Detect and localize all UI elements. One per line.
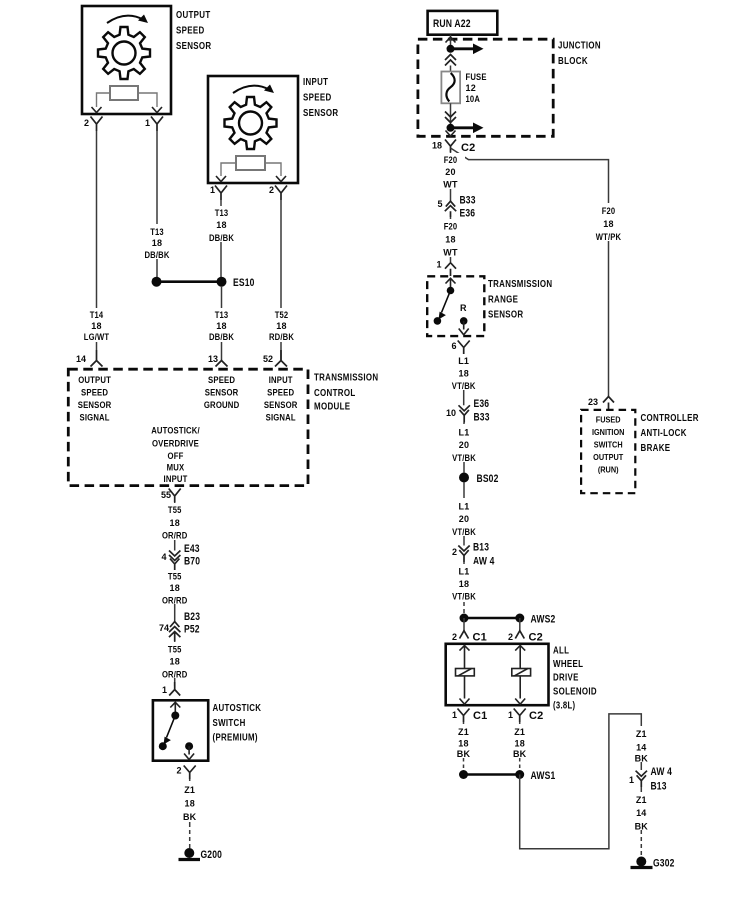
- svg-text:SENSOR: SENSOR: [205, 388, 239, 399]
- svg-text:RANGE: RANGE: [488, 295, 518, 306]
- svg-text:TRANSMISSION: TRANSMISSION: [314, 373, 378, 384]
- svg-text:2: 2: [269, 185, 274, 195]
- junction block dashed box: [418, 39, 553, 136]
- inline connector B13 AW4 pin 2: [452, 542, 495, 568]
- svg-text:C2: C2: [529, 710, 543, 722]
- solenoid pin 1 C2: [508, 709, 543, 723]
- inline connector E43 B70 pin 4: [162, 543, 201, 570]
- autostick pin 2: [177, 766, 196, 780]
- splice ES10: [152, 277, 255, 289]
- svg-text:INPUT: INPUT: [269, 375, 293, 386]
- svg-text:18: 18: [152, 238, 162, 248]
- transmission control module dashed box: [68, 369, 308, 485]
- svg-text:18: 18: [458, 369, 468, 379]
- wire L1 18 VT/BK bottom: [448, 562, 480, 614]
- svg-text:SIGNAL: SIGNAL: [80, 413, 110, 424]
- svg-text:C1: C1: [473, 632, 487, 644]
- svg-text:2: 2: [177, 766, 182, 776]
- wire L1 20 VT/BK: [448, 423, 480, 473]
- svg-text:Z1: Z1: [636, 795, 647, 805]
- svg-text:G200: G200: [201, 849, 223, 861]
- svg-text:12: 12: [466, 83, 476, 93]
- svg-text:WT: WT: [443, 180, 458, 190]
- svg-text:1: 1: [437, 260, 442, 270]
- svg-text:AUTOSTICK/: AUTOSTICK/: [151, 426, 200, 437]
- svg-text:BK: BK: [457, 749, 471, 759]
- svg-text:AWS1: AWS1: [531, 770, 556, 782]
- label AUTOSTICK SWITCH PREMIUM: [213, 703, 262, 744]
- svg-text:LG/WT: LG/WT: [84, 332, 110, 342]
- svg-text:14: 14: [636, 808, 646, 818]
- svg-text:18: 18: [216, 321, 226, 331]
- svg-text:SPEED: SPEED: [303, 93, 332, 104]
- svg-text:FUSED: FUSED: [596, 415, 621, 425]
- svg-text:L1: L1: [459, 567, 470, 577]
- svg-text:1: 1: [452, 710, 457, 720]
- svg-text:AUTOSTICK: AUTOSTICK: [213, 703, 262, 714]
- svg-text:SPEED: SPEED: [176, 26, 205, 37]
- RUN A22 box: [428, 11, 498, 35]
- svg-text:L1: L1: [459, 428, 470, 438]
- wire from RUN A22 into junction block: [446, 35, 456, 49]
- svg-text:RUN A22: RUN A22: [433, 18, 471, 30]
- svg-text:ANTI-LOCK: ANTI-LOCK: [641, 428, 687, 439]
- label OUTPUT SPEED SENSOR: [176, 10, 212, 52]
- label JUNCTION BLOCK: [558, 41, 601, 68]
- svg-text:18: 18: [603, 219, 613, 229]
- pin 2 output sensor: [84, 117, 103, 132]
- svg-text:ES10: ES10: [233, 277, 255, 289]
- svg-text:18: 18: [169, 583, 179, 593]
- label ALL WHEEL DRIVE SOLENOID 3.8L: [553, 646, 597, 712]
- svg-text:SPEED: SPEED: [267, 388, 294, 399]
- svg-text:JUNCTION: JUNCTION: [558, 41, 601, 52]
- svg-text:OR/RD: OR/RD: [162, 670, 188, 680]
- svg-text:VT/BK: VT/BK: [452, 381, 476, 391]
- svg-text:T55: T55: [168, 572, 182, 582]
- wire T52 18 RD/BK: [266, 200, 297, 361]
- TRS pin 1: [437, 260, 457, 277]
- svg-text:SENSOR: SENSOR: [488, 310, 524, 321]
- wire branch diagonal to right: [451, 148, 625, 396]
- svg-text:GROUND: GROUND: [204, 400, 240, 411]
- wire AWS1 to ground route: [520, 714, 642, 849]
- svg-text:18: 18: [184, 799, 194, 809]
- svg-text:18: 18: [91, 321, 101, 331]
- svg-text:B13: B13: [473, 542, 489, 554]
- svg-text:T55: T55: [168, 645, 182, 655]
- svg-text:IGNITION: IGNITION: [592, 427, 625, 437]
- splice AWS2: [460, 614, 556, 626]
- label CONTROLLER ANTI-LOCK BRAKE: [641, 413, 700, 454]
- svg-text:F20: F20: [444, 222, 458, 232]
- wire F20 18 WT: [436, 217, 465, 262]
- svg-text:18: 18: [276, 321, 286, 331]
- svg-text:1: 1: [145, 118, 150, 128]
- svg-text:DB/BK: DB/BK: [209, 332, 234, 342]
- svg-text:SENSOR: SENSOR: [264, 400, 298, 411]
- svg-text:INPUT: INPUT: [164, 474, 188, 485]
- svg-text:P52: P52: [184, 624, 200, 636]
- svg-text:18: 18: [514, 739, 524, 749]
- svg-text:2: 2: [84, 118, 89, 128]
- svg-text:DB/BK: DB/BK: [144, 250, 169, 260]
- wire T13 18 DB/BK below splice: [206, 286, 237, 361]
- svg-text:B70: B70: [184, 556, 200, 568]
- svg-text:T52: T52: [275, 310, 289, 320]
- svg-text:B13: B13: [651, 781, 667, 793]
- svg-text:14: 14: [76, 354, 86, 364]
- svg-text:VT/BK: VT/BK: [452, 527, 476, 537]
- CAB pin 23: [588, 397, 614, 410]
- TCM pin 55: [161, 489, 181, 503]
- svg-text:55: 55: [161, 490, 171, 500]
- pin 1 output sensor: [145, 117, 163, 132]
- resistor inside input sensor: [216, 156, 286, 182]
- TCM text autostick overdrive off mux input: [151, 426, 200, 486]
- svg-text:MUX: MUX: [167, 463, 185, 474]
- output speed sensor: [82, 6, 171, 114]
- svg-text:OR/RD: OR/RD: [162, 596, 188, 606]
- resistor inside output sensor: [92, 86, 163, 113]
- svg-text:SENSOR: SENSOR: [78, 400, 112, 411]
- svg-text:1: 1: [210, 185, 215, 195]
- wire T55 18 OR/RD segment 3: [159, 641, 191, 686]
- svg-text:1: 1: [162, 685, 167, 695]
- pin 1 input sensor: [210, 185, 227, 200]
- TCM text input speed sensor signal: [264, 375, 298, 424]
- splice AWS1: [459, 770, 555, 782]
- solenoid pin 2 C1: [452, 618, 487, 644]
- svg-text:F20: F20: [602, 206, 616, 216]
- svg-text:BS02: BS02: [477, 473, 499, 485]
- TCM text output speed sensor signal: [78, 375, 112, 424]
- junction dot with feed arrow bottom: [445, 103, 484, 136]
- svg-text:B33: B33: [474, 412, 490, 424]
- connector C2 pin 18: [432, 140, 475, 155]
- svg-text:BLOCK: BLOCK: [558, 56, 588, 67]
- svg-text:SWITCH: SWITCH: [594, 440, 623, 450]
- svg-text:10: 10: [446, 408, 456, 418]
- svg-text:G302: G302: [653, 858, 675, 870]
- svg-text:BK: BK: [183, 812, 197, 822]
- svg-text:SPEED: SPEED: [208, 375, 235, 386]
- svg-text:T13: T13: [215, 208, 229, 218]
- svg-text:RD/BK: RD/BK: [269, 332, 294, 342]
- input speed sensor: [208, 76, 298, 183]
- svg-text:T13: T13: [215, 310, 229, 320]
- svg-text:2: 2: [452, 547, 457, 557]
- wire T14 18 LG/WT: [82, 131, 112, 350]
- svg-text:OUTPUT: OUTPUT: [593, 452, 624, 462]
- svg-text:BRAKE: BRAKE: [641, 443, 671, 454]
- svg-text:WT: WT: [443, 248, 458, 258]
- TCM pin 52: [263, 350, 287, 367]
- svg-text:T14: T14: [90, 310, 104, 320]
- wire F20 20 WT: [436, 152, 465, 201]
- svg-text:20: 20: [445, 167, 455, 177]
- wire Z1 18 BK right: [506, 722, 533, 770]
- svg-text:4: 4: [162, 552, 167, 562]
- wire Z1 14 BK upper: [628, 726, 655, 770]
- svg-text:SPEED: SPEED: [81, 388, 108, 399]
- label TRANSMISSION RANGE SENSOR: [488, 279, 552, 321]
- label INPUT SPEED SENSOR: [303, 77, 339, 119]
- svg-text:(PREMIUM): (PREMIUM): [213, 733, 258, 744]
- svg-text:(3.8L): (3.8L): [553, 701, 575, 712]
- svg-text:INPUT: INPUT: [303, 77, 328, 88]
- svg-text:C2: C2: [461, 142, 475, 154]
- svg-text:13: 13: [208, 354, 218, 364]
- svg-text:18: 18: [445, 235, 455, 245]
- wire Z1 18 BK left: [450, 722, 477, 770]
- label TRANSMISSION CONTROL MODULE: [314, 373, 378, 413]
- autostick pin 1: [162, 682, 180, 696]
- svg-text:74: 74: [159, 623, 169, 633]
- svg-text:T55: T55: [168, 505, 182, 515]
- svg-text:VT/BK: VT/BK: [452, 592, 476, 602]
- svg-text:1: 1: [508, 710, 513, 720]
- TCM text speed sensor ground: [204, 375, 240, 411]
- svg-text:(RUN): (RUN): [598, 465, 619, 475]
- transmission range sensor dashed box: [427, 276, 484, 336]
- svg-text:OR/RD: OR/RD: [162, 531, 188, 541]
- wire T13 18 DB/BK from input pin 1: [206, 200, 237, 277]
- svg-text:10A: 10A: [466, 94, 481, 104]
- svg-text:SWITCH: SWITCH: [213, 718, 246, 729]
- svg-text:18: 18: [169, 657, 179, 667]
- svg-text:L1: L1: [458, 356, 469, 366]
- svg-text:C2: C2: [529, 632, 543, 644]
- svg-text:C1: C1: [473, 710, 487, 722]
- svg-text:R: R: [460, 303, 467, 313]
- wire L1 20 VT/BK lower: [448, 483, 480, 546]
- controller anti-lock brake dashed box: [581, 410, 635, 493]
- svg-text:MODULE: MODULE: [314, 402, 350, 413]
- svg-text:18: 18: [216, 220, 226, 230]
- ground G200: [179, 848, 223, 861]
- svg-text:2: 2: [508, 632, 513, 642]
- svg-text:B33: B33: [460, 195, 476, 207]
- svg-text:DRIVE: DRIVE: [553, 673, 579, 684]
- svg-text:SENSOR: SENSOR: [303, 108, 339, 119]
- TCM pin 13: [208, 354, 228, 367]
- svg-text:VT/BK: VT/BK: [452, 453, 476, 463]
- splice BS02: [459, 473, 499, 486]
- svg-text:AW 4: AW 4: [651, 766, 673, 778]
- svg-text:OUTPUT: OUTPUT: [78, 375, 111, 386]
- inline connector B23 P52 pin 74: [159, 611, 200, 641]
- svg-text:DB/BK: DB/BK: [209, 233, 234, 243]
- solenoid pin 1 C1: [452, 709, 487, 723]
- svg-text:52: 52: [263, 354, 273, 364]
- svg-text:TRANSMISSION: TRANSMISSION: [488, 279, 552, 290]
- svg-text:23: 23: [588, 397, 598, 407]
- svg-text:18: 18: [458, 739, 468, 749]
- svg-text:18: 18: [169, 518, 179, 528]
- wire T13 18 DB/BK from output pin 1: [142, 131, 172, 277]
- svg-text:2: 2: [452, 632, 457, 642]
- ground G302: [631, 857, 675, 870]
- inline connector AW4 B13 pin 1: [629, 766, 673, 793]
- svg-text:1: 1: [629, 775, 634, 785]
- svg-text:Z1: Z1: [636, 729, 647, 739]
- junction dot with feed arrow top: [445, 44, 484, 66]
- svg-text:B23: B23: [184, 611, 200, 623]
- all wheel drive solenoid box: [446, 644, 549, 705]
- fuse 12 10A: [441, 66, 486, 105]
- TCM pin 14: [76, 350, 103, 367]
- svg-text:T13: T13: [150, 227, 164, 237]
- svg-text:Z1: Z1: [514, 727, 525, 737]
- svg-text:WT/PK: WT/PK: [596, 232, 622, 242]
- svg-text:BK: BK: [635, 754, 649, 764]
- wire T55 18 OR/RD segment 2: [159, 570, 191, 622]
- svg-text:E36: E36: [460, 208, 476, 220]
- wire Z1 14 BK lower: [628, 787, 655, 857]
- svg-text:E36: E36: [474, 398, 490, 410]
- svg-text:E43: E43: [184, 543, 200, 555]
- svg-text:SIGNAL: SIGNAL: [266, 413, 296, 424]
- svg-text:OFF: OFF: [168, 451, 184, 462]
- svg-text:CONTROL: CONTROL: [314, 388, 356, 399]
- svg-text:SOLENOID: SOLENOID: [553, 687, 597, 698]
- pin 2 input sensor: [269, 185, 287, 200]
- inline connector B33 E36 pin 5: [438, 195, 476, 220]
- svg-text:Z1: Z1: [184, 785, 195, 795]
- wire L1 18 VT/BK upper: [448, 354, 479, 405]
- svg-text:Z1: Z1: [458, 727, 469, 737]
- svg-text:ALL: ALL: [553, 646, 569, 657]
- svg-text:BK: BK: [513, 749, 527, 759]
- wire T55 18 OR/RD segment 1: [159, 502, 191, 551]
- solenoid pin 2 C2: [508, 618, 543, 644]
- svg-text:18: 18: [432, 141, 442, 151]
- svg-text:L1: L1: [459, 502, 470, 512]
- svg-text:OUTPUT: OUTPUT: [176, 10, 211, 21]
- svg-text:20: 20: [459, 440, 469, 450]
- svg-text:SENSOR: SENSOR: [176, 41, 212, 52]
- svg-text:5: 5: [438, 199, 443, 209]
- wire Z1 18 BK to ground: [176, 779, 204, 848]
- autostick switch box: [153, 700, 208, 760]
- svg-text:14: 14: [636, 743, 646, 753]
- svg-text:CONTROLLER: CONTROLLER: [641, 413, 700, 424]
- svg-text:6: 6: [452, 341, 457, 351]
- TRS pin 6: [452, 341, 470, 355]
- svg-text:18: 18: [459, 579, 469, 589]
- svg-text:WHEEL: WHEEL: [553, 659, 583, 670]
- svg-text:OVERDRIVE: OVERDRIVE: [152, 438, 199, 449]
- inline connector E36 B33 pin 10: [446, 398, 490, 424]
- svg-text:F20: F20: [444, 155, 458, 165]
- svg-text:20: 20: [459, 514, 469, 524]
- svg-text:AWS2: AWS2: [531, 614, 556, 626]
- svg-text:FUSE: FUSE: [466, 72, 487, 82]
